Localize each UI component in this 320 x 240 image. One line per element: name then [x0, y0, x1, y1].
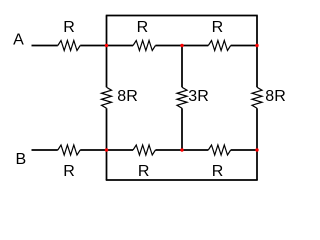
junction node 4 (bottom left) [105, 148, 108, 151]
wire top rail [106, 15, 258, 17]
svg-text:R: R [63, 19, 75, 36]
wire R5 to node 5 [155, 149, 182, 151]
wire node 4 to R5 [107, 149, 134, 151]
svg-text:R: R [212, 19, 224, 36]
wire middle vertical lower [181, 108, 183, 150]
wire R6 to node 6 [231, 149, 257, 151]
resistor R1 (top left, between A and node 1) [58, 41, 80, 51]
junction node 1 (top left) [105, 44, 108, 47]
resistor R7 8R (left vertical) [102, 87, 112, 108]
wire node 2 to R3 [182, 45, 208, 47]
svg-text:R: R [63, 163, 75, 180]
wire left vertical lower [106, 108, 108, 180]
resistor R8 3R (middle vertical) [177, 87, 187, 108]
svg-text:8R: 8R [117, 88, 137, 105]
resistor R3 (top right) [208, 41, 230, 51]
resistor R5 (bottom middle) [133, 145, 155, 155]
junction node 6 (bottom right) [255, 148, 258, 151]
wire A lead [32, 45, 58, 47]
resistor R9 8R (right vertical) [252, 87, 262, 108]
wire R1 to node 1 [80, 45, 106, 47]
wire node 1 to R2 [107, 45, 134, 47]
wire R3 to node 3 [231, 45, 257, 47]
resistor R2 (top middle) [133, 41, 155, 51]
resistor R6 (bottom right) [208, 145, 230, 155]
wire middle vertical upper [181, 46, 183, 88]
wire right vertical upper [256, 16, 258, 88]
svg-text:3R: 3R [188, 88, 208, 105]
svg-text:R: R [137, 19, 149, 36]
wire left vertical upper [106, 16, 108, 88]
wire node 5 to R6 [182, 149, 208, 151]
wire R2 to node 2 [155, 45, 182, 47]
svg-text:R: R [138, 163, 150, 180]
wire R4 to node 4 [80, 149, 106, 151]
wire bottom rail [106, 179, 258, 181]
wire B lead [32, 149, 58, 151]
svg-text:A: A [13, 32, 24, 49]
junction node 5 (bottom middle) [180, 148, 183, 151]
svg-text:B: B [15, 151, 26, 168]
junction node 3 (top right) [255, 44, 258, 47]
resistor R4 (bottom left, between B and node 4) [58, 145, 80, 155]
svg-text:8R: 8R [265, 88, 285, 105]
wire right vertical lower [256, 108, 258, 180]
junction node 2 (top middle) [180, 44, 183, 47]
svg-text:R: R [212, 163, 224, 180]
